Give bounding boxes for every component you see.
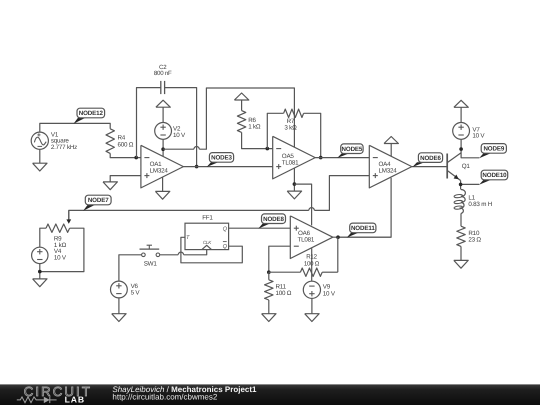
voltage source V7 10 V	[453, 122, 486, 139]
node flag NODE6	[412, 153, 442, 167]
node flag NODE5	[337, 144, 363, 158]
svg-text:Q1: Q1	[462, 163, 471, 170]
svg-text:5 V: 5 V	[131, 290, 141, 297]
junction R11-R12	[267, 270, 271, 274]
inductor L1 0.83 mH	[454, 190, 492, 214]
op-amp OA4 LM324	[369, 145, 412, 188]
svg-text:NODE9: NODE9	[483, 146, 504, 153]
voltage source V2 10 V	[155, 122, 186, 139]
node flag NODE3	[207, 153, 234, 167]
ground below OA1	[155, 191, 169, 199]
svg-text:TL081: TL081	[282, 159, 299, 166]
svg-text:2.777 kHz: 2.777 kHz	[51, 144, 77, 151]
junction emitter	[459, 183, 463, 187]
wire R10-ground	[460, 246, 462, 260]
svg-text:LAB: LAB	[65, 395, 85, 405]
switch SW1	[140, 245, 160, 267]
junction at OA1 inverting input	[134, 156, 138, 160]
svg-text:1 kΩ: 1 kΩ	[248, 124, 261, 131]
wire SW1-CLK	[160, 250, 207, 255]
svg-text:TL081: TL081	[298, 237, 315, 244]
wire OA1 output (NODE3 net)	[183, 166, 272, 168]
junction R7-output	[319, 156, 323, 160]
junction OA6 output	[336, 235, 340, 239]
wire OA5 output (NODE5 net)	[315, 157, 369, 159]
junction V4 bottom	[38, 270, 42, 274]
wire C2 left feedback	[137, 88, 161, 158]
junction OA5 V-	[293, 182, 297, 186]
wire OA1 V- pin	[162, 177, 164, 191]
voltage source V4 10 V	[32, 247, 67, 263]
voltage source V9 10 V	[303, 281, 336, 298]
svg-text:NODE3: NODE3	[211, 155, 232, 162]
svg-text:10 V: 10 V	[323, 290, 336, 297]
wire R9 left-V4	[40, 228, 46, 247]
svg-text:10 V: 10 V	[54, 255, 67, 262]
CircuitLab logo	[17, 384, 92, 405]
ground below V9	[305, 314, 319, 322]
node flag NODE7	[83, 195, 111, 211]
svg-text:23 Ω: 23 Ω	[468, 237, 481, 244]
wire R7 left leg	[267, 113, 283, 148]
wire OA6 - input	[269, 246, 291, 272]
svg-text:600 Ω: 600 Ω	[118, 141, 134, 148]
wire R11-ground	[268, 300, 270, 314]
wire OA4 V- pin to NODE11	[338, 178, 391, 238]
svg-text:100 Ω: 100 Ω	[276, 290, 292, 297]
resistor R4 600 ohm	[106, 129, 134, 154]
wire R9 right loop	[40, 228, 84, 271]
resistor R7 3 kohm	[284, 109, 304, 131]
potentiometer R9 1 kohm	[46, 210, 71, 248]
ground below OA5	[287, 191, 301, 199]
svg-text:NODE12: NODE12	[79, 110, 104, 117]
wire OA5 V- pin	[293, 168, 295, 191]
svg-text:http://circuitlab.com/cbwmes2: http://circuitlab.com/cbwmes2	[112, 392, 217, 401]
svg-text:NODE11: NODE11	[351, 225, 375, 232]
resistor R11 100 ohm	[265, 272, 292, 300]
wire R7 right leg	[304, 113, 321, 157]
node flag NODE11	[347, 223, 376, 238]
svg-text:NODE10: NODE10	[482, 172, 507, 179]
wire supply to OA5 V+ pin	[163, 88, 294, 149]
wire V2-OA1 V+ pin	[162, 139, 164, 156]
svg-text:NODE7: NODE7	[88, 197, 109, 204]
svg-text:800 nF: 800 nF	[154, 70, 172, 77]
node flag NODE10	[479, 170, 508, 185]
wire C2 right feedback	[165, 88, 197, 167]
ground at OA1 + input	[103, 182, 117, 190]
capacitor C2 800 nF	[154, 64, 172, 94]
op-amp OA6 TL081	[290, 216, 333, 259]
wire OA6 V- to V9	[311, 248, 313, 281]
wire V4-ground	[39, 264, 41, 279]
voltage source V6 5 V	[111, 281, 141, 298]
wire V9-ground	[311, 298, 313, 313]
footer title text	[112, 385, 257, 401]
wire V7-collector-NODE9	[461, 139, 479, 158]
ground below R10	[454, 260, 468, 268]
power flag above R6	[234, 93, 248, 111]
ground below V1	[33, 149, 47, 171]
flip-flop FF1	[185, 215, 229, 250]
wire OA6 output (NODE11 net)	[333, 236, 391, 238]
op-amp OA1 LM324	[141, 145, 184, 188]
wire V1-R4 (NODE12 net)	[40, 123, 110, 132]
wire FF1 Q to OA6 (NODE8 net)	[229, 227, 291, 229]
resistor R6 1 kohm	[237, 111, 260, 133]
wire OA5 V- to OA6 V+	[294, 184, 311, 225]
ground below R11	[262, 314, 276, 322]
wire FF1 T-Qbar loop	[181, 237, 242, 262]
wire V6-ground	[118, 298, 120, 314]
op-amp OA5 TL081	[273, 136, 316, 179]
wire L1-R10	[460, 213, 462, 226]
wire OA1 + input to ground	[110, 176, 141, 182]
wire OA4 output (NODE6 net)	[412, 166, 447, 168]
wire R12-output	[337, 237, 339, 272]
junction C2/output	[195, 165, 199, 169]
svg-text:SW1: SW1	[144, 260, 158, 267]
node flag NODE12	[74, 108, 105, 124]
svg-text:100 Ω: 100 Ω	[304, 260, 320, 267]
wire R6-OA5 inverting input	[242, 132, 273, 148]
svg-text:NODE8: NODE8	[263, 216, 284, 223]
resistor R10 23 ohm	[457, 226, 482, 246]
ground below V6	[112, 314, 126, 322]
footer bar	[0, 384, 540, 405]
wire pot wiper to OA4 + input (NODE7 net)	[69, 176, 370, 220]
voltage source V1 (square, 2.777 kHz)	[31, 132, 77, 151]
ground below V4	[33, 279, 47, 287]
wire R4-OA1 inverting input	[110, 153, 141, 157]
power flag above V7	[454, 100, 468, 122]
svg-text:NODE5: NODE5	[342, 146, 363, 153]
wire SW1-V6	[119, 255, 142, 281]
wire emitter-L1-NODE10	[461, 181, 480, 190]
svg-text:NODE6: NODE6	[420, 155, 441, 162]
transistor Q1	[447, 153, 470, 181]
svg-text:3 kΩ: 3 kΩ	[284, 125, 297, 132]
node flag NODE9	[479, 144, 506, 159]
resistor R12 100 ohm	[269, 254, 338, 277]
svg-text:0.83 m H: 0.83 m H	[468, 201, 492, 208]
power flag above OA4	[384, 137, 398, 157]
svg-text:10 V: 10 V	[173, 132, 186, 139]
node flag NODE8	[258, 214, 285, 229]
junction V+ supply branch	[161, 147, 165, 151]
svg-text:FF1: FF1	[202, 215, 213, 222]
svg-text:LM324: LM324	[379, 167, 398, 174]
svg-text:LM324: LM324	[150, 168, 169, 175]
svg-text:10 V: 10 V	[472, 132, 485, 139]
power flag above V2	[156, 100, 170, 122]
svg-text:CLK: CLK	[203, 240, 212, 245]
junction collector	[459, 147, 463, 151]
junction at OA5 inverting input	[266, 147, 270, 151]
